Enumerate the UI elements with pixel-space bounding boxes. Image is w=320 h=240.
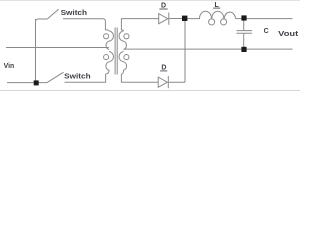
diode D1 triangle [159,14,168,24]
wire Vin+ mid rail to primary center tap [6,47,109,49]
svg-text:C: C [264,28,269,35]
transformer T1 primary loop dot upper [104,34,109,39]
junction node A diodes/inductor [182,16,187,21]
svg-text:D: D [161,2,166,9]
diode D2 cathode bar [167,76,169,88]
inductor L1 loop 1 [209,19,215,25]
wire left vertical (switch bus) [35,19,37,83]
svg-text:Switch: Switch [64,73,90,80]
diode D1 cathode bar [168,13,170,25]
underline D (top) [159,8,167,10]
transformer T1 core [115,28,117,75]
wire secondary bottom to diode D2 anode [121,74,158,82]
junction node Vin- / switch bus [34,80,39,85]
diode D2 triangle [158,77,167,87]
transformer T1 secondary winding [119,30,127,74]
svg-text:Switch: Switch [61,10,87,17]
underline L [213,7,220,9]
wire secondary center tap to output bottom [124,48,292,50]
transformer T1 secondary loop dot lower [124,55,129,60]
wire Vin- bottom rail to switch SW2 pivot [7,82,47,84]
wire inductor L1 to output top [236,18,293,20]
svg-text:Vout: Vout [278,29,299,38]
inductor L1 bump 1 [190,11,212,18]
wire switch SW1 contact to transformer primary top [63,19,105,30]
inductor L1 bump 3 [224,12,236,18]
frame bottom hairline [0,90,300,92]
capacitor C1 bottom lead [243,34,245,49]
capacitor C1 top lead [243,19,245,31]
switch SW1 blade [47,9,58,19]
capacitor C1 plates [237,31,253,34]
junction node output top / capacitor [241,15,246,20]
wire secondary top to diode D1 anode [121,19,158,30]
switch SW2 blade [47,72,64,82]
inductor L1 loop 2 [221,19,227,25]
svg-text:Vin: Vin [4,63,15,70]
junction node output bottom / capacitor [241,47,246,52]
transformer T1 primary winding [105,30,113,74]
transformer T1 secondary loop dot upper [124,34,129,39]
svg-text:D: D [161,64,166,71]
wire diode D1 to node A [169,18,189,20]
transformer T1 primary loop dot lower [104,55,109,60]
wire switch SW2 contact to transformer primary bottom [65,74,106,82]
wire node A vertical to diode D2 cathode [184,19,186,83]
wire diode D2 to vertical [169,81,185,83]
inductor L1 bump 2 [212,11,224,18]
wire top-left rail to switch pivot [36,19,48,23]
frame top hairline [0,0,300,2]
underline D (bottom) [160,70,167,72]
